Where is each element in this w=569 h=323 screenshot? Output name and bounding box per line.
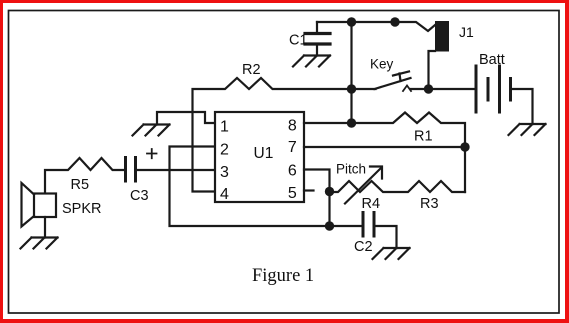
svg-text:2: 2 (220, 142, 229, 159)
svg-text:6: 6 (288, 163, 297, 180)
svg-text:Batt: Batt (479, 52, 505, 68)
svg-text:U1: U1 (254, 145, 274, 162)
svg-text:J1: J1 (459, 24, 474, 40)
svg-text:R2: R2 (242, 62, 261, 78)
svg-text:4: 4 (220, 186, 229, 203)
svg-text:R1: R1 (414, 129, 433, 145)
svg-text:R5: R5 (71, 177, 90, 193)
svg-text:Figure 1: Figure 1 (252, 266, 314, 286)
svg-text:1: 1 (220, 119, 229, 136)
svg-text:Key: Key (370, 57, 394, 72)
svg-text:3: 3 (220, 164, 229, 181)
svg-text:7: 7 (288, 139, 297, 156)
svg-text:8: 8 (288, 118, 297, 135)
svg-text:C3: C3 (130, 188, 149, 204)
svg-text:Pitch: Pitch (336, 162, 366, 177)
svg-text:R4: R4 (362, 196, 381, 212)
svg-text:SPKR: SPKR (62, 201, 102, 217)
svg-text:5: 5 (288, 185, 297, 202)
svg-text:C1: C1 (289, 33, 308, 49)
svg-text:C2: C2 (354, 239, 373, 255)
svg-text:R3: R3 (420, 196, 439, 212)
